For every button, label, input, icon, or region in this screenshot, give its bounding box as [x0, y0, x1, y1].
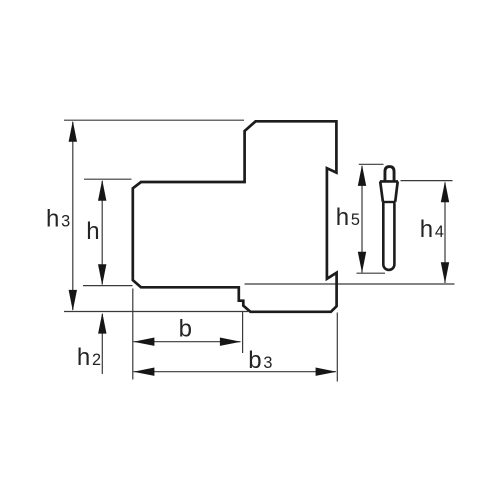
svg-text:h: h: [86, 218, 99, 245]
svg-text:b: b: [179, 316, 192, 343]
